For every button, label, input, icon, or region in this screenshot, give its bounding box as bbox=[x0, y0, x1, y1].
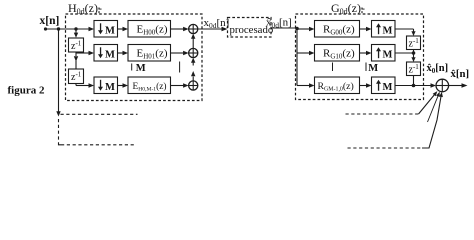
svg-text:figura 2: figura 2 bbox=[8, 85, 45, 97]
svg-text:M: M bbox=[368, 63, 378, 74]
svg-text:M: M bbox=[105, 49, 115, 60]
svg-text:M: M bbox=[105, 82, 115, 93]
svg-text:M: M bbox=[383, 25, 393, 36]
svg-text:x0d[n]: x0d[n] bbox=[204, 17, 230, 30]
svg-text:x[n]: x[n] bbox=[40, 15, 60, 27]
svg-text:M: M bbox=[383, 82, 393, 93]
svg-text:x̂0[n]: x̂0[n] bbox=[427, 63, 449, 75]
svg-text:H0d(z)-: H0d(z)- bbox=[68, 1, 102, 16]
svg-text:M: M bbox=[383, 49, 393, 60]
svg-text:G0d(z)-: G0d(z)- bbox=[331, 1, 365, 16]
svg-text:M: M bbox=[136, 63, 146, 74]
svg-text:x̂[n]: x̂[n] bbox=[451, 68, 470, 80]
svg-text:M: M bbox=[105, 25, 115, 36]
svg-text:x̂0d[n]: x̂0d[n] bbox=[266, 17, 292, 30]
